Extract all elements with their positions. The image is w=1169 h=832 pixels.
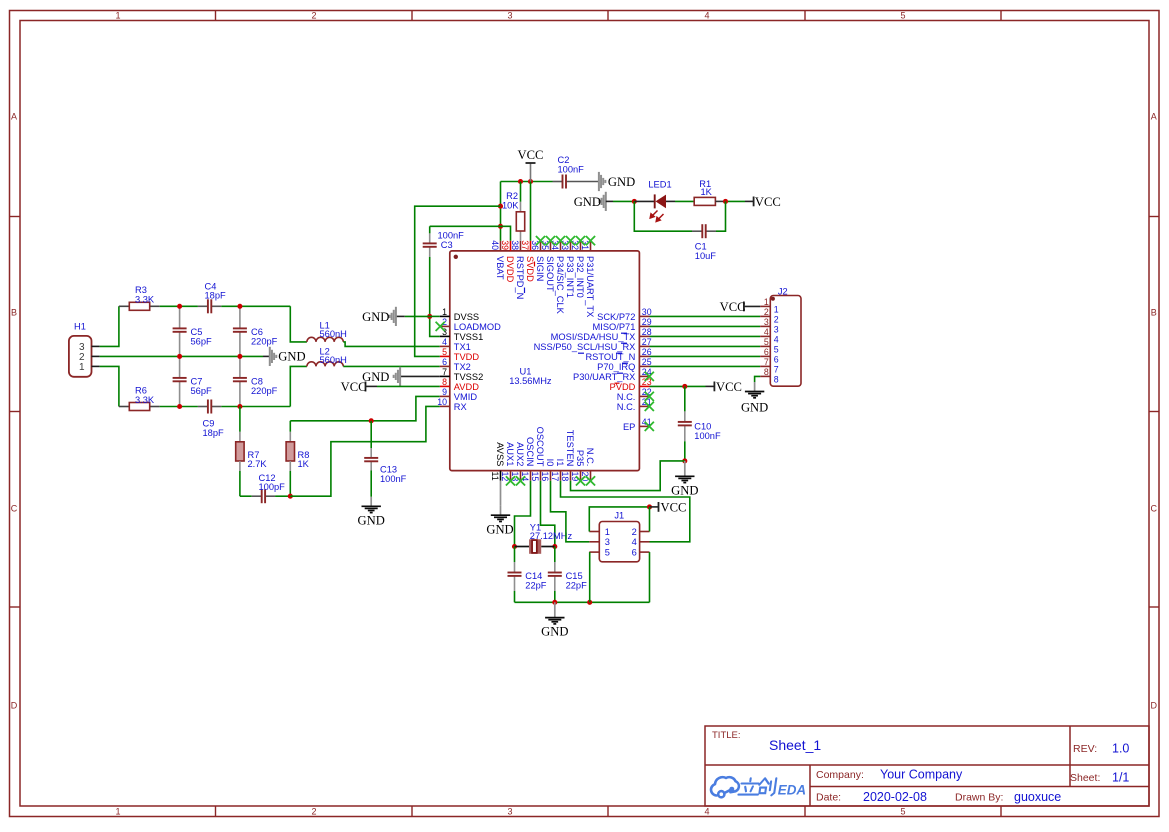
- svg-text:100nF: 100nF: [694, 431, 721, 441]
- wire pin40 riser: [500, 182, 502, 241]
- svg-text:C6: C6: [251, 327, 263, 337]
- wire I1 to J1 pin4: [561, 481, 690, 542]
- svg-text:LOADMOD: LOADMOD: [454, 322, 501, 332]
- junction dot: [552, 544, 557, 549]
- svg-text:RSTPD_N: RSTPD_N: [515, 256, 525, 299]
- svg-text:4: 4: [704, 807, 709, 817]
- wire: [370, 421, 372, 448]
- svg-text:C10: C10: [694, 421, 711, 431]
- logo glyph chuang: [758, 778, 776, 795]
- svg-text:SIGIN: SIGIN: [535, 256, 545, 281]
- svg-text:7: 7: [764, 357, 769, 367]
- svg-text:560nH: 560nH: [320, 355, 347, 365]
- svg-text:SCK/P72: SCK/P72: [597, 312, 635, 322]
- U1 pin 41 EP: [639, 425, 649, 427]
- pin name overline marks: [525, 262, 629, 384]
- svg-text:39: 39: [500, 240, 510, 250]
- resistor R7: [236, 442, 244, 461]
- wire: [100, 366, 119, 406]
- title block text: [712, 730, 1129, 804]
- wire: [715, 200, 725, 202]
- capacitor C10: [678, 411, 692, 441]
- svg-text:2.7K: 2.7K: [248, 459, 268, 469]
- wire: [725, 200, 745, 202]
- svg-text:3: 3: [507, 807, 512, 817]
- svg-text:H1: H1: [74, 322, 86, 332]
- svg-text:18: 18: [560, 472, 570, 482]
- svg-text:3.3K: 3.3K: [135, 295, 155, 305]
- wire OSCIN: [515, 481, 531, 547]
- wire: [650, 345, 761, 347]
- wire: [160, 305, 198, 307]
- junction dot: [682, 384, 687, 389]
- svg-text:VBAT: VBAT: [495, 256, 505, 280]
- svg-text:11: 11: [490, 472, 500, 481]
- J1 pins 1-6: [589, 527, 649, 558]
- svg-text:TVDD: TVDD: [454, 352, 480, 362]
- wire: [221, 305, 290, 307]
- wire: [119, 406, 129, 408]
- led LED1: [650, 194, 666, 221]
- wire: [150, 406, 160, 408]
- connector H1 box: [69, 336, 92, 377]
- svg-text:J2: J2: [778, 286, 788, 296]
- junction dot: [518, 179, 523, 184]
- wire J1 pin2: [649, 507, 651, 532]
- wire: [343, 342, 440, 347]
- svg-text:4: 4: [632, 537, 637, 547]
- wire: [554, 591, 556, 602]
- svg-text:P33_INT1: P33_INT1: [565, 256, 575, 298]
- svg-text:40: 40: [490, 240, 500, 250]
- wire: [650, 325, 761, 327]
- svg-text:TITLE:: TITLE:: [712, 730, 741, 741]
- wire: [650, 335, 761, 337]
- ground flag LED: [599, 192, 605, 211]
- junction dot: [552, 600, 557, 605]
- svg-text:VCC: VCC: [661, 500, 687, 514]
- svg-text:R3: R3: [135, 285, 147, 295]
- svg-text:Your Company: Your Company: [880, 768, 963, 782]
- wire: [289, 461, 291, 471]
- svg-text:8: 8: [442, 377, 447, 387]
- wire: [100, 355, 263, 357]
- wire: [716, 201, 726, 231]
- U1 bottom pins 11-20: [490, 427, 595, 482]
- svg-text:Date:: Date:: [816, 792, 841, 804]
- svg-text:25: 25: [642, 357, 652, 367]
- svg-text:Drawn By:: Drawn By:: [955, 792, 1003, 804]
- svg-text:1: 1: [115, 807, 120, 817]
- wire: [514, 591, 516, 602]
- wire: [289, 432, 291, 442]
- svg-text:EP: EP: [623, 422, 635, 432]
- wire C1 branch: [634, 201, 692, 231]
- junction dots filter rails: [177, 304, 242, 409]
- wire: [634, 200, 654, 202]
- vcc flag pin8: [365, 382, 367, 392]
- svg-text:N.C.: N.C.: [617, 392, 636, 402]
- svg-text:GND: GND: [608, 175, 635, 189]
- svg-text:6: 6: [632, 548, 637, 558]
- svg-text:15: 15: [530, 472, 540, 482]
- svg-text:1: 1: [442, 307, 447, 317]
- connector H1 pins 3 2 1: [79, 342, 100, 373]
- svg-text:6: 6: [774, 355, 779, 365]
- resistor R2: [520, 182, 522, 202]
- wire J1 pin6: [649, 552, 651, 602]
- svg-text:DVSS: DVSS: [454, 312, 479, 322]
- svg-text:DVDD: DVDD: [505, 256, 515, 283]
- svg-text:VCC: VCC: [716, 380, 742, 394]
- svg-text:2: 2: [774, 315, 779, 325]
- junction dot: [587, 600, 592, 605]
- ground flag pin1: [396, 315, 405, 317]
- svg-text:GND: GND: [671, 483, 698, 497]
- wire: [666, 200, 675, 202]
- wire: [370, 471, 372, 497]
- svg-text:4: 4: [704, 11, 709, 21]
- wire: [275, 495, 290, 497]
- svg-text:28: 28: [642, 327, 652, 337]
- svg-text:10: 10: [437, 397, 447, 407]
- svg-text:GND: GND: [362, 310, 389, 324]
- wire: [650, 315, 761, 317]
- vcc flag PVDD: [706, 385, 715, 387]
- wire: [514, 547, 516, 563]
- svg-text:N.C.: N.C.: [617, 402, 636, 412]
- vcc flag top: [530, 163, 532, 182]
- svg-text:AVDD: AVDD: [454, 382, 479, 392]
- ground flag C2: [599, 172, 605, 191]
- capacitor C1: [692, 224, 716, 238]
- svg-text:2: 2: [632, 527, 637, 537]
- svg-text:P34/SIC_CLK: P34/SIC_CLK: [555, 256, 565, 315]
- svg-text:16: 16: [540, 472, 550, 482]
- wire: [240, 495, 252, 497]
- svg-text:100pF: 100pF: [259, 482, 286, 492]
- junction dot: [723, 199, 728, 204]
- svg-text:2: 2: [764, 307, 769, 317]
- wire: [289, 471, 291, 496]
- wire: [650, 365, 761, 367]
- svg-text:B: B: [11, 308, 17, 318]
- wire J2 pin8 gnd: [755, 376, 761, 382]
- svg-text:A: A: [1151, 112, 1157, 122]
- title block table: [705, 726, 1149, 806]
- svg-text:6: 6: [442, 357, 447, 367]
- inductor L1: [307, 337, 343, 342]
- svg-text:C: C: [11, 504, 18, 514]
- svg-text:TX1: TX1: [454, 342, 471, 352]
- svg-text:Sheet:: Sheet:: [1070, 772, 1100, 784]
- svg-text:RX: RX: [454, 402, 467, 412]
- U1 right pins 30-21: [534, 307, 652, 412]
- wire: [239, 461, 241, 471]
- wire TVDD feed: [415, 206, 501, 356]
- svg-text:4: 4: [774, 335, 779, 345]
- svg-text:22pF: 22pF: [566, 580, 588, 590]
- svg-text:SVDD: SVDD: [525, 256, 535, 282]
- junction dot: [647, 504, 652, 509]
- svg-text:TX2: TX2: [454, 362, 471, 372]
- svg-text:D: D: [11, 701, 18, 711]
- junction dot: [498, 204, 503, 209]
- svg-text:5: 5: [900, 807, 905, 817]
- connector J1 box: [599, 522, 639, 562]
- ground flag AVSS: [500, 481, 502, 506]
- junction dot: [512, 544, 517, 549]
- no-connect X marks: [436, 236, 654, 486]
- U1 pin1 marker dot: [454, 255, 458, 259]
- svg-text:Sheet_1: Sheet_1: [769, 737, 821, 753]
- svg-text:6: 6: [764, 347, 769, 357]
- wire: [554, 547, 556, 563]
- svg-text:GND: GND: [574, 195, 601, 209]
- svg-text:VCC: VCC: [341, 380, 367, 394]
- inductor L2: [307, 362, 343, 367]
- svg-text:PVDD: PVDD: [610, 382, 636, 392]
- U1 top pins 40-31: [490, 240, 595, 317]
- svg-text:8: 8: [764, 367, 769, 377]
- junction dot: [498, 224, 503, 229]
- wire TESTEN gnd: [571, 461, 685, 491]
- wire: [239, 432, 241, 442]
- junction dot: [369, 418, 374, 423]
- svg-text:1.0: 1.0: [1112, 742, 1129, 756]
- svg-text:1K: 1K: [298, 459, 310, 469]
- wire: [289, 421, 291, 432]
- svg-text:13.56MHz: 13.56MHz: [509, 376, 552, 386]
- capacitor C3: [423, 233, 437, 257]
- svg-text:1: 1: [605, 527, 610, 537]
- svg-text:J1: J1: [614, 511, 624, 521]
- svg-text:REV:: REV:: [1073, 743, 1097, 755]
- svg-text:C: C: [1151, 504, 1158, 514]
- svg-text:R2: R2: [506, 191, 518, 201]
- svg-text:GND: GND: [486, 522, 513, 536]
- svg-text:38: 38: [510, 240, 520, 250]
- svg-text:GND: GND: [278, 350, 305, 364]
- junction dot: [632, 199, 637, 204]
- svg-text:VCC: VCC: [518, 148, 544, 162]
- junction dot: [682, 458, 687, 463]
- svg-text:17: 17: [550, 472, 560, 482]
- ground symbol Y1 rail: [545, 602, 564, 624]
- capacitor C6: [233, 306, 247, 356]
- svg-text:C3: C3: [441, 240, 453, 250]
- wire: [150, 305, 160, 307]
- wire VMID net: [290, 396, 440, 420]
- logo glyph li: [738, 778, 760, 794]
- wire: [290, 366, 307, 406]
- svg-text:220pF: 220pF: [251, 337, 278, 347]
- svg-text:TESTEN: TESTEN: [565, 430, 575, 467]
- svg-text:3: 3: [774, 325, 779, 335]
- svg-text:18pF: 18pF: [205, 291, 227, 301]
- wire: [430, 315, 440, 317]
- capacitor C14: [508, 562, 522, 591]
- ground symbol under C13: [362, 497, 381, 513]
- crystal Y1: [515, 539, 555, 554]
- svg-text:guoxuce: guoxuce: [1014, 790, 1061, 804]
- svg-text:10K: 10K: [502, 200, 519, 210]
- wire: [160, 406, 198, 408]
- svg-text:30: 30: [642, 307, 652, 317]
- svg-text:SIGOUT: SIGOUT: [545, 256, 555, 292]
- wire J1 pin1 vcc: [589, 507, 649, 532]
- ground flag mid rail: [263, 355, 270, 357]
- svg-text:P31/UART_TX: P31/UART_TX: [585, 256, 595, 317]
- svg-text:3: 3: [507, 11, 512, 21]
- wire: [221, 406, 290, 408]
- svg-text:100nF: 100nF: [380, 474, 407, 484]
- svg-text:2020-02-08: 2020-02-08: [863, 790, 927, 804]
- svg-text:C13: C13: [380, 464, 397, 474]
- wire DVSS feed: [430, 257, 440, 336]
- vcc flag J1: [650, 506, 659, 508]
- wire I0 to J1 pin3: [551, 481, 590, 542]
- capacitor C7: [173, 356, 187, 406]
- junction dot: [528, 179, 533, 184]
- svg-text:3: 3: [605, 537, 610, 547]
- wire bottom rail: [515, 601, 650, 603]
- wire: [343, 365, 440, 367]
- capacitor C5: [173, 306, 187, 356]
- svg-text:2: 2: [311, 11, 316, 21]
- svg-text:VCC: VCC: [720, 300, 746, 314]
- svg-text:1/1: 1/1: [1112, 771, 1129, 785]
- svg-text:P70_IRQ: P70_IRQ: [597, 362, 635, 372]
- svg-text:10uF: 10uF: [695, 251, 717, 261]
- capacitor C13: [364, 448, 378, 471]
- svg-text:P32_INT0: P32_INT0: [575, 256, 585, 298]
- ground symbol C10: [675, 461, 694, 483]
- wire SVDD riser: [530, 182, 532, 241]
- svg-text:5: 5: [900, 11, 905, 21]
- svg-text:TVSS2: TVSS2: [454, 372, 483, 382]
- resistor R1: [694, 197, 715, 205]
- connector J2 box: [770, 296, 801, 387]
- svg-text:29: 29: [642, 317, 652, 327]
- svg-text:5: 5: [605, 548, 610, 558]
- svg-text:RSTOUT_N: RSTOUT_N: [585, 352, 635, 362]
- svg-text:1: 1: [764, 297, 769, 307]
- wire PVDD: [650, 385, 706, 387]
- svg-text:27: 27: [642, 337, 652, 347]
- wire VCC rail: [501, 181, 553, 183]
- wire: [429, 226, 431, 233]
- svg-text:4: 4: [764, 327, 769, 337]
- wire: [239, 407, 241, 432]
- capacitor C4: [198, 299, 221, 313]
- svg-text:3: 3: [764, 317, 769, 327]
- svg-text:3.3K: 3.3K: [135, 395, 155, 405]
- J2 pin1 marker dot: [771, 297, 775, 301]
- ground symbol J2: [745, 382, 764, 398]
- svg-text:7: 7: [774, 365, 779, 375]
- svg-text:N.C.: N.C.: [585, 448, 595, 467]
- junction dot: [427, 314, 432, 319]
- svg-text:C7: C7: [191, 376, 203, 386]
- svg-text:1: 1: [774, 305, 779, 315]
- svg-text:NSS/P50_SCL/HSU_RX: NSS/P50_SCL/HSU_RX: [534, 342, 636, 352]
- svg-text:OSCIN: OSCIN: [525, 437, 535, 466]
- ic U1 body: [450, 251, 640, 471]
- ground flag pin7: [400, 375, 440, 377]
- svg-text:560nH: 560nH: [320, 329, 347, 339]
- svg-text:56pF: 56pF: [191, 337, 213, 347]
- svg-text:Company:: Company:: [816, 769, 864, 781]
- wire: [684, 386, 686, 411]
- capacitor C2: [553, 175, 599, 189]
- junction dot: [288, 494, 293, 499]
- wire DVDD link: [430, 226, 511, 241]
- svg-text:P30/UART_RX: P30/UART_RX: [573, 372, 635, 382]
- svg-text:TVSS1: TVSS1: [454, 332, 483, 342]
- svg-text:5: 5: [764, 337, 769, 347]
- svg-text:EDA: EDA: [778, 783, 806, 798]
- svg-text:1: 1: [79, 362, 85, 373]
- svg-text:C5: C5: [191, 327, 203, 337]
- svg-text:VCC: VCC: [755, 195, 781, 209]
- wire: [650, 355, 761, 357]
- U1 left pins 1-10: [437, 307, 501, 412]
- svg-text:GND: GND: [541, 625, 568, 639]
- svg-text:I1: I1: [555, 459, 565, 467]
- vcc flag J2 pin1: [743, 302, 745, 312]
- wire: [100, 306, 119, 346]
- svg-text:R6: R6: [135, 386, 147, 396]
- wire RX net: [290, 406, 440, 496]
- svg-text:220pF: 220pF: [251, 386, 278, 396]
- svg-text:18pF: 18pF: [203, 428, 225, 438]
- svg-text:4: 4: [442, 337, 447, 347]
- wire: [239, 471, 241, 496]
- svg-text:A: A: [11, 112, 17, 122]
- svg-text:AVSS: AVSS: [495, 442, 505, 466]
- svg-text:9: 9: [442, 387, 447, 397]
- svg-text:1: 1: [115, 11, 120, 21]
- capacitor C15: [548, 562, 562, 591]
- capacitor C12: [252, 489, 275, 503]
- capacitor C9: [198, 400, 221, 414]
- logo cloud icon: [711, 777, 739, 797]
- wire J1 pin5: [589, 552, 591, 602]
- svg-text:1K: 1K: [701, 187, 713, 197]
- svg-text:26: 26: [642, 347, 652, 357]
- wire: [119, 305, 129, 307]
- resistor R3: [129, 302, 149, 310]
- wire: [290, 306, 307, 342]
- svg-text:AUX1: AUX1: [505, 442, 515, 466]
- svg-text:7: 7: [442, 367, 447, 377]
- svg-text:8: 8: [774, 375, 779, 385]
- J2 pins 1-8: [760, 297, 779, 384]
- svg-text:GND: GND: [741, 401, 768, 415]
- svg-text:LED1: LED1: [648, 179, 671, 189]
- svg-text:5: 5: [774, 345, 779, 355]
- svg-text:MISO/P71: MISO/P71: [593, 322, 636, 332]
- svg-text:VMID: VMID: [454, 392, 478, 402]
- svg-text:37: 37: [520, 240, 530, 250]
- resistor R6: [129, 403, 149, 411]
- svg-text:5: 5: [442, 347, 447, 357]
- svg-text:C8: C8: [251, 376, 263, 386]
- svg-text:22pF: 22pF: [525, 580, 547, 590]
- svg-text:P35: P35: [575, 450, 585, 467]
- svg-text:100nF: 100nF: [558, 165, 585, 175]
